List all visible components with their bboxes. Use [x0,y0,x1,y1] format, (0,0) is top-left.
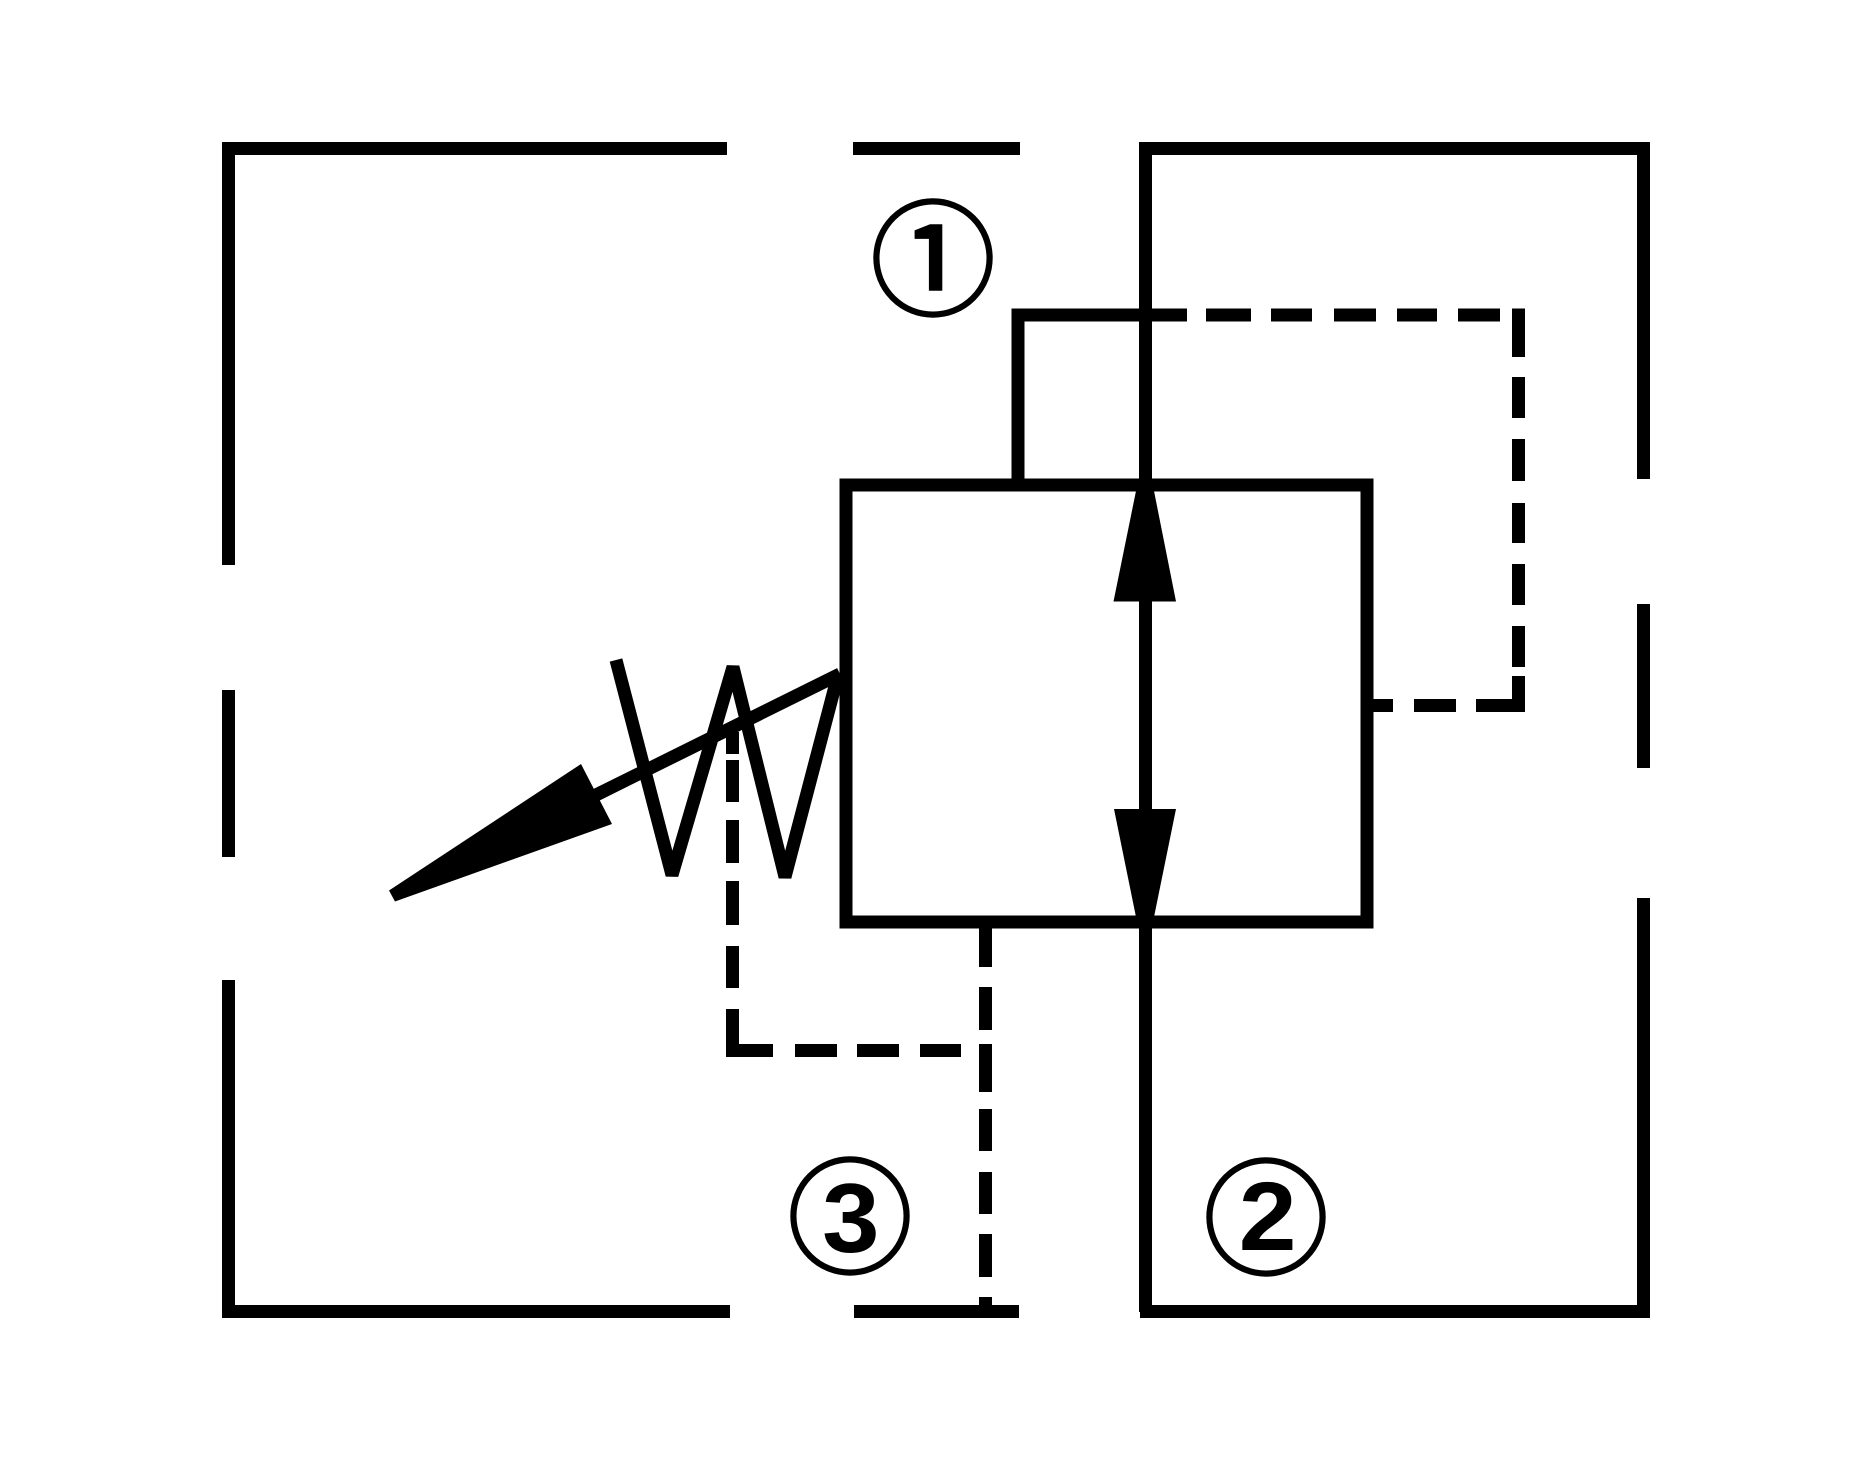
envelope left edge dash 3 [222,980,235,1318]
port 2 label circle [1209,1160,1322,1273]
envelope bottom edge dash 2 [854,1305,1019,1318]
port 1 label text (digit 1 drawn as path) [915,224,943,290]
envelope bottom edge dash 1 [222,1305,730,1318]
envelope top edge dash 3 (solid with port 1 path) [1146,142,1650,155]
svg-text:2: 2 [1239,1163,1297,1272]
main port line 1-2 (vertical through valve) [1139,142,1152,1312]
envelope top edge dash 1 [222,142,727,155]
flow arrow up (inside valve) [1114,491,1177,602]
pilot line from port 1, vertical run dashes [1512,309,1525,713]
flow arrow down (inside valve) [1114,809,1176,917]
port 1 label circle [876,201,989,314]
svg-text:3: 3 [822,1164,879,1274]
spring drain pilot, horizontal dashes [726,1044,961,1057]
valve body (main spool envelope) [846,485,1367,922]
adjustment arrow shaft [596,674,840,795]
spring drain pilot, vertical dashes [726,732,739,1057]
port 1 connection jog [1018,315,1187,490]
envelope right edge dash 3 [1637,898,1650,1318]
envelope right edge dash 1 [1637,142,1650,479]
envelope top edge dash 2 [853,142,1020,155]
adjustment arrow head [389,764,612,902]
envelope bottom edge dash 3 (solid with port 2 path) [1140,1305,1650,1318]
envelope right edge dash 2 [1637,604,1650,768]
envelope left edge dash 1 [222,142,235,565]
pilot line from port 1, horizontal run dashes [1206,309,1500,322]
port 3 label circle [793,1159,906,1272]
pilot line from valve bottom to port 3 border, dashes [979,928,992,1312]
envelope left edge dash 2 [222,690,235,857]
pilot line into valve right side, dashes and stub [1366,699,1525,712]
adjustable spring (zigzag) [616,660,838,877]
